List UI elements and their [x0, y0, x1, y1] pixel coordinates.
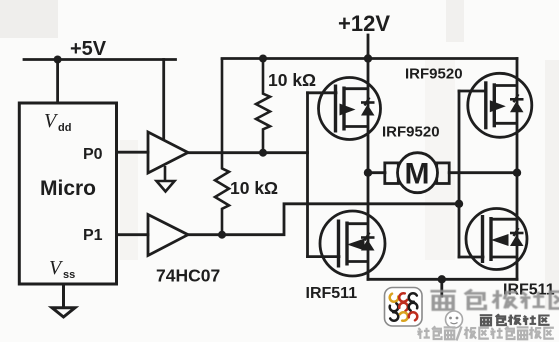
wire right gate line — [458, 91, 461, 257]
wire Q2 gate stub — [459, 90, 486, 93]
watermark logo C-shapes — [388, 291, 419, 322]
watermark logo square — [385, 288, 423, 327]
svg-text:IRF511: IRF511 — [503, 282, 555, 299]
svg-text:dd: dd — [58, 122, 71, 134]
svg-text:P0: P0 — [83, 146, 103, 163]
svg-text:Micro: Micro — [40, 177, 96, 200]
wire P0 micro to buffer — [117, 151, 149, 154]
motor M1 — [385, 153, 449, 193]
node motor left — [364, 169, 372, 177]
wire +5V to Vdd — [56, 60, 59, 104]
wire ground stub bottom rail — [440, 279, 443, 296]
node P1 right gates — [455, 200, 463, 208]
buffer U1B 74HC07 P1 — [148, 215, 188, 256]
wire right leg Q2 drain / Q4 drain — [516, 59, 519, 280]
watermark face icon — [446, 311, 463, 328]
watermark bottom light text row — [417, 326, 554, 340]
svg-text:+5V: +5V — [70, 38, 107, 60]
watermark big text row — [430, 290, 559, 310]
node R2 bottom on P1 — [218, 231, 226, 239]
transistor Q4 IRF511 bottom-right (N-channel) — [466, 209, 527, 270]
wire +12V stub — [367, 35, 370, 59]
svg-text:M: M — [405, 158, 430, 191]
wire left leg Q1 drain / Q3 drain — [367, 59, 370, 280]
resistor R2 10k pull-up P1 — [215, 59, 229, 235]
transistor Q2 IRF9520 top-right (P-channel) — [468, 73, 532, 137]
wire motor right — [449, 171, 517, 174]
wire motor left — [368, 171, 385, 174]
svg-text:10 kΩ: 10 kΩ — [230, 178, 278, 198]
micro box — [19, 103, 116, 284]
watermark small dark text row — [480, 314, 550, 325]
ground below micro — [52, 284, 75, 317]
resistor R1 10k pull-up P0 — [256, 59, 270, 153]
node R1 bottom on P0 — [259, 149, 267, 157]
svg-text:+12V: +12V — [338, 11, 390, 36]
wire +5V to 74HC07 power — [162, 60, 165, 140]
wire P0 buffer output to left gates — [188, 151, 308, 154]
node R1 top — [259, 55, 267, 63]
node +12V entry — [364, 54, 372, 62]
svg-text:IRF511: IRF511 — [306, 285, 358, 302]
wire +12V top bus — [222, 57, 517, 60]
svg-text:74HC07: 74HC07 — [156, 266, 220, 286]
wire Q1 gate stub — [308, 91, 337, 94]
wire P1 buffer output — [188, 204, 459, 235]
node bottom rail ground — [438, 275, 446, 283]
node +5V/Vdd — [54, 56, 62, 64]
transistor Q3 IRF511 bottom-left (N-channel) — [320, 211, 385, 276]
svg-text:ss: ss — [63, 269, 75, 281]
svg-text:IRF9520: IRF9520 — [382, 124, 440, 141]
wire left gate line — [306, 93, 309, 257]
wire bottom rail — [368, 278, 517, 281]
wire P1 micro to buffer — [117, 233, 149, 236]
node motor right — [513, 169, 521, 177]
buffer U1A 74HC07 P0 — [148, 132, 188, 173]
wire Q3 gate stub — [308, 255, 340, 258]
svg-text:10 kΩ: 10 kΩ — [268, 70, 316, 90]
svg-text:IRF9520: IRF9520 — [405, 66, 463, 83]
ground below buffer U1A — [157, 166, 175, 192]
svg-text:P1: P1 — [83, 227, 103, 244]
wire Q4 gate stub — [459, 256, 483, 259]
wire +5V bus — [24, 58, 176, 61]
transistor Q1 IRF9520 top-left (P-channel) — [319, 78, 381, 140]
